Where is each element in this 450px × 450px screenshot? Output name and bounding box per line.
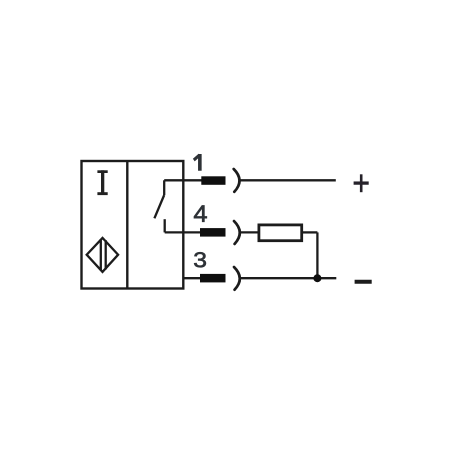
load resistor RL — [259, 225, 302, 241]
pin 4 terminal bar — [200, 228, 226, 237]
proximity-sensor diamond symbol — [87, 238, 118, 272]
switch S top contact stub — [163, 180, 165, 195]
wire pin 3 to minus supply — [240, 277, 336, 279]
wire switch to pin 1 — [164, 179, 202, 181]
pin 1 terminal bar — [201, 176, 225, 185]
wire corner down to minus rail — [316, 232, 318, 278]
sensor body outline — [82, 161, 184, 289]
wire sensor body to pin 3 — [183, 277, 201, 279]
label pin 1 — [193, 154, 201, 170]
junction node resistor to minus rail — [313, 274, 321, 282]
connector socket arc pin 1 — [234, 169, 240, 192]
switch S bottom contact stub — [164, 219, 166, 232]
inductive marking letter I — [97, 170, 107, 195]
wire resistor to corner — [303, 231, 318, 233]
connector socket arc pin 3 — [234, 267, 240, 290]
pin 3 terminal bar — [200, 274, 226, 283]
switch S arm (normally open) — [154, 195, 164, 218]
wire pin 4 to load resistor — [240, 231, 259, 233]
wire pin 1 to plus supply — [240, 179, 336, 181]
label pin 4 — [194, 206, 207, 222]
sensor compartment divider — [126, 161, 128, 289]
minus supply terminal — [355, 280, 372, 284]
label pin 3 — [194, 252, 206, 267]
plus supply terminal — [354, 174, 369, 192]
wire switch to pin 4 — [165, 231, 201, 233]
connector socket arc pin 4 — [234, 221, 240, 244]
